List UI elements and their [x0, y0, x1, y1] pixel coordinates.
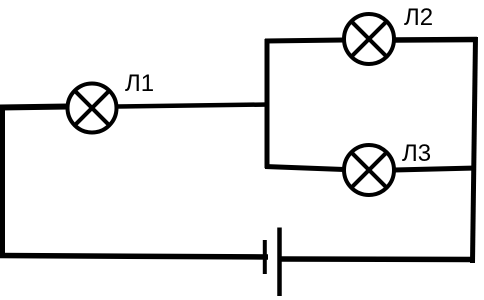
- wire: parallel-section left vertical: [265, 39, 270, 168]
- wire: lamp L1 to parallel junction: [117, 105, 269, 107]
- wire: right vertical: [473, 37, 476, 263]
- battery positive plate (long): [277, 228, 282, 297]
- lamp Л2: [344, 14, 394, 64]
- wire: left vertical: [0, 105, 5, 258]
- wire: bottom right segment from battery: [281, 256, 475, 262]
- battery negative plate (short): [263, 240, 267, 274]
- svg-text:Л3: Л3: [402, 140, 431, 167]
- wire: bottom left segment to battery: [0, 256, 268, 258]
- wire: bottom branch left segment: [265, 167, 344, 170]
- wire: top branch right segment: [394, 37, 477, 43]
- lamp Л3: [344, 145, 394, 195]
- wire: top branch left segment: [265, 40, 344, 41]
- lamp Л1: [68, 84, 117, 133]
- wire: top-left horizontal from left edge to lamp L1: [0, 107, 68, 108]
- svg-text:Л2: Л2: [404, 4, 433, 31]
- svg-text:Л1: Л1: [125, 70, 154, 97]
- wire: bottom branch right segment: [394, 168, 476, 170]
